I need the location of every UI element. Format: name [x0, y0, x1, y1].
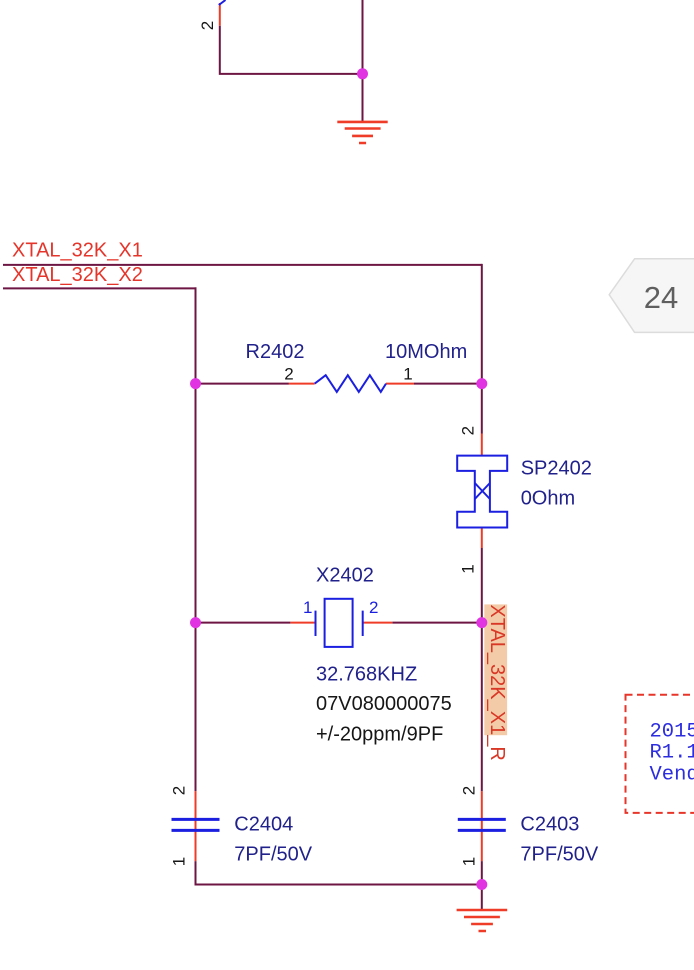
svg-text:XTAL_32K_X1_R: XTAL_32K_X1_R [486, 604, 508, 760]
svg-text:2: 2 [459, 426, 478, 435]
svg-text:2: 2 [284, 365, 293, 384]
svg-text:1: 1 [170, 857, 189, 866]
svg-text:1: 1 [303, 598, 312, 617]
svg-text:1: 1 [403, 365, 412, 384]
svg-text:10MOhm: 10MOhm [385, 341, 467, 363]
svg-text:2: 2 [369, 598, 378, 617]
svg-text:R1.1: R1.1 [650, 741, 694, 764]
svg-text:1: 1 [460, 857, 479, 866]
svg-text:07V080000075: 07V080000075 [316, 693, 452, 715]
svg-text:32.768KHZ: 32.768KHZ [316, 663, 417, 685]
svg-text:XTAL_32K_X1: XTAL_32K_X1 [12, 239, 143, 261]
svg-text:C2404: C2404 [234, 813, 293, 835]
svg-text:7PF/50V: 7PF/50V [520, 843, 598, 865]
svg-text:7PF/50V: 7PF/50V [234, 843, 312, 865]
svg-text:2: 2 [170, 786, 189, 795]
svg-text:C2403: C2403 [520, 813, 579, 835]
svg-text:XTAL_32K_X2: XTAL_32K_X2 [12, 264, 143, 286]
svg-text:2: 2 [460, 786, 479, 795]
svg-text:2: 2 [198, 21, 217, 30]
svg-text:+/-20ppm/9PF: +/-20ppm/9PF [316, 723, 443, 745]
svg-text:24: 24 [644, 280, 678, 315]
svg-text:SP2402: SP2402 [521, 458, 592, 480]
svg-text:2015: 2015 [650, 721, 694, 744]
svg-text:R2402: R2402 [246, 341, 305, 363]
svg-text:X2402: X2402 [316, 565, 374, 587]
svg-text:1: 1 [459, 564, 478, 573]
svg-text:Vendo: Vendo [650, 763, 694, 786]
svg-text:0Ohm: 0Ohm [521, 487, 575, 509]
